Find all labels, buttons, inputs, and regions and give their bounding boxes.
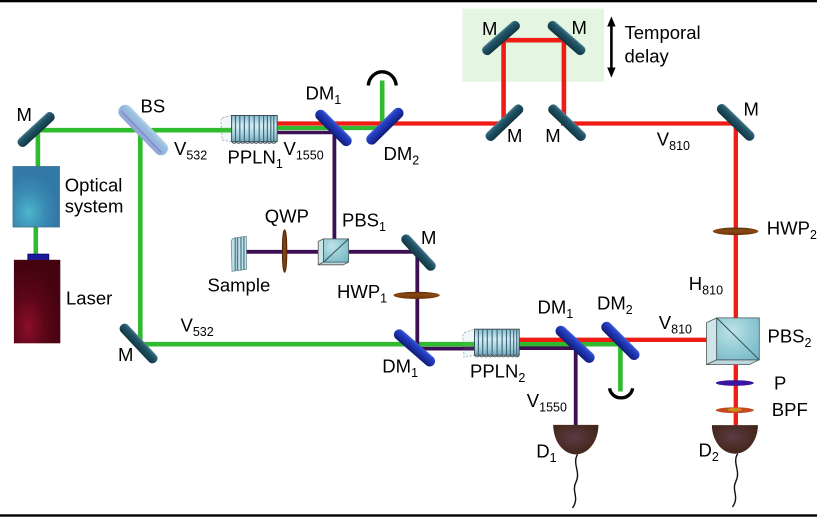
mirror M delay bottom-left [484,103,526,143]
detector D2 [712,425,758,454]
top frame line [0,0,817,2]
svg-text:M: M [421,227,436,248]
detector D1 cable [573,454,578,508]
svg-text:QWP: QWP [265,206,309,227]
wire purple beam mirror M down through HWP1 to DM1 [415,250,419,350]
temporal delay arrow [607,16,615,77]
mirror M top-left [16,110,57,149]
wire green beam M to PPLN1 [36,128,233,133]
mirror M bottom-left [118,322,160,366]
svg-text:Sample: Sample [208,275,271,296]
wire red beam delay loop right vertical [562,38,567,124]
PBS2 cube [707,318,760,365]
mirror M delay top-right [546,19,588,57]
svg-text:BPF: BPF [772,399,808,420]
dichroic mirror DM2 top [364,106,406,147]
mirror M delay top-left [480,19,522,57]
dichroic mirror DM1 top [313,107,354,148]
svg-text:PPLN2: PPLN2 [470,361,525,386]
mirror M right [715,102,757,143]
wire red beam delay to mirror M right [561,121,736,125]
svg-text:HWP1: HWP1 [337,281,387,306]
bottom frame line [0,514,817,516]
dichroic mirror DM1 bottom-middle [553,323,597,365]
wire green beam optical system to laser [33,226,38,261]
wire purple beam DM1 down to D1 [574,346,578,426]
svg-text:Optical: Optical [65,174,123,195]
PPLN2 crystal [463,329,519,357]
svg-text:M: M [507,125,522,146]
wire purple beam PBS1 to mirror M [347,250,419,254]
svg-text:M: M [17,104,32,125]
wire purple beam PPLN2 to DM1 [500,346,577,350]
sample element [231,236,246,271]
QWP waveplate [282,230,286,273]
detector D1 [553,425,598,455]
svg-text:PPLN1: PPLN1 [228,147,283,172]
laser box [14,260,60,344]
wire red beam delay loop top horizontal [501,38,566,43]
wire red beam PPLN2 to PBS2 V810 [500,338,716,342]
svg-text:M: M [572,17,587,38]
wire green beam DM2 up to beam dump [380,81,385,128]
svg-text:Temporal: Temporal [625,22,701,43]
wire purple beam Sample to PBS1 [245,250,322,254]
wire red beam right mirror M down to D2 [734,124,738,427]
detector D2 cable [733,454,738,507]
mirror M near PBS1 [399,232,438,273]
dichroic mirror DM2 bottom-middle [599,320,642,363]
temporal delay stage background [463,9,605,82]
wire purple beam DM1 to PPLN2 [415,347,479,351]
beam splitter BS [116,102,171,158]
svg-text:BS: BS [141,96,166,117]
svg-text:Laser: Laser [66,288,112,309]
PBS1 cube [318,239,348,265]
svg-text:M: M [482,18,497,39]
beam dump arc top [368,72,396,86]
wire green beam DM2 down to beam dump [618,344,623,391]
wire purple beam PPLN1 to DM1 [258,131,336,135]
wire green beam V532 horizontal to DM2 [140,342,620,347]
wire purple beam DM1 down to PBS1 [332,129,336,240]
wire red beam delay loop left vertical [501,38,506,124]
svg-text:M: M [118,344,133,365]
svg-text:M: M [744,98,759,119]
svg-text:P: P [774,373,786,394]
wire green beam PPLN1 to DM2 [277,126,386,130]
laser cap [28,254,49,261]
wire green beam BS down to mirror M [138,130,143,344]
HWP1 waveplate [393,292,439,299]
band pass filter BPF [716,407,754,413]
beam dump arc bottom [610,388,633,398]
mirror M delay bottom-right [546,103,588,143]
polarizer P [716,380,754,386]
svg-text:delay: delay [625,46,670,67]
dichroic mirror DM1 bottom-left [392,327,438,369]
svg-text:M: M [545,125,560,146]
svg-text:HWP2: HWP2 [767,218,817,243]
PPLN1 crystal [221,116,277,144]
wire green beam M down to optical system [36,128,41,168]
HWP2 waveplate [713,228,759,236]
wire red beam PPLN1 to mirror M right [277,121,507,125]
svg-text:system: system [65,195,124,216]
optical system box [13,167,60,228]
